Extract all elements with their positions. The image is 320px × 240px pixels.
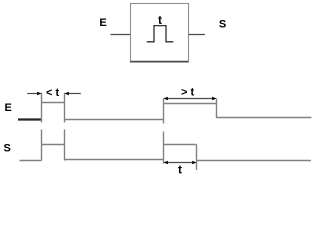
pulse symbol inside block <box>147 26 174 42</box>
wire E low right <box>217 117 312 119</box>
wire E to block <box>111 34 131 36</box>
node reference line 4 (E falling edge 2, x=216.2) <box>216 99 218 119</box>
svg-text:S: S <box>219 19 226 31</box>
node reference line 3 lower (S rising edge 2) <box>163 132 165 164</box>
dimension arrow &gt;t span (double headed) <box>164 97 217 101</box>
node reference line 2 upper (E falling edge, x=64.4) <box>64 93 66 123</box>
wire E low start (thick) <box>18 118 42 120</box>
wire S pulse1 high <box>42 144 65 146</box>
wire E pulse1 high <box>42 102 65 104</box>
node reference line 2 lower (S falling edge) <box>64 130 66 161</box>
node reference line 1 upper (E rising edge, x=41.3) <box>41 93 43 123</box>
svg-text:t: t <box>158 13 162 27</box>
wire S low middle <box>65 159 164 161</box>
dimension arrow t span (double headed) <box>164 161 197 165</box>
function block bottom edge <box>130 61 189 63</box>
svg-text:< t: < t <box>46 87 59 99</box>
wire S low start <box>20 160 42 162</box>
dimension arrow left of &lt;t span (points right) <box>27 92 41 96</box>
node reference line 3 upper (E rising edge 2, x=163.7) <box>163 99 165 124</box>
dimension arrow right of &lt;t span (points left) <box>65 92 81 96</box>
svg-text:S: S <box>4 143 11 155</box>
wire block to S <box>189 34 206 36</box>
svg-text:E: E <box>5 102 12 114</box>
wire S low right <box>197 160 312 162</box>
svg-text:> t: > t <box>181 86 194 98</box>
wire E pulse2 high <box>164 103 217 105</box>
svg-text:t: t <box>178 162 182 176</box>
function block U1 (pulse timer) <box>131 4 189 62</box>
wire S pulse2 high <box>164 144 197 146</box>
node reference line 1 lower (S rising edge) <box>41 130 43 161</box>
wire S falling edge 2 (x=196.4) <box>196 145 198 171</box>
svg-text:E: E <box>99 17 106 29</box>
wire E low middle <box>65 119 164 121</box>
